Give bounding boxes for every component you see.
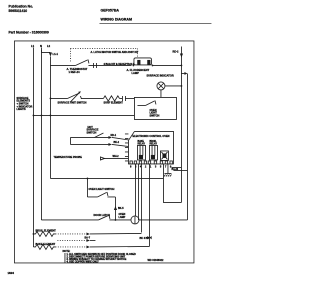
svg-text:SWITCH: SWITCH (86, 132, 96, 135)
svg-text:WD 31646322: WD 31646322 (147, 259, 164, 262)
wire: jumper bracket at top of L2 (41, 50, 50, 53)
wire: oven circuits feed drop (50, 177, 163, 179)
label: surface indicator (146, 73, 173, 77)
label: oven thermostat (66, 67, 87, 74)
note block (62, 250, 136, 264)
svg-text:13/94: 13/94 (7, 271, 14, 275)
hot surface switch blade (94, 133, 103, 138)
svg-text:L1: L1 (31, 44, 35, 48)
svg-text:SURFACE UNIT SWITCH: SURFACE UNIT SWITCH (57, 101, 86, 104)
label: oven lamp (118, 213, 125, 219)
svg-text:A. LATCH MOTOR SWITCH AND ASSY: A. LATCH MOTOR SWITCH AND ASSY KIT (90, 51, 138, 54)
label: temperature probe (53, 156, 82, 159)
terminal ticks (93, 63, 96, 68)
wire (119, 97, 122, 99)
oven thermostat switch blade (75, 60, 87, 65)
inline connector on drop 4 (147, 236, 151, 239)
label RD-2 (172, 49, 179, 53)
junction (87, 178, 89, 180)
svg-text:Publication No.: Publication No. (8, 4, 33, 8)
label: hot surface switch (86, 126, 98, 135)
svg-text:TEMPERATURE PROBE: TEMPERATURE PROBE (53, 156, 82, 159)
broil relay K2 (149, 145, 157, 160)
dashed drop to lamp (136, 48, 138, 56)
svg-text:RELAY: RELAY (137, 143, 145, 146)
wire: probe to control (104, 157, 128, 159)
connector arrow RD-1 (108, 136, 112, 139)
wire (81, 97, 103, 99)
node L1 label (31, 44, 35, 48)
svg-text:BK-2: BK-2 (113, 141, 119, 144)
label: broil relay (149, 141, 157, 145)
svg-text:Part Number - 316000309: Part Number - 316000309 (8, 30, 48, 34)
junction (33, 115, 35, 117)
door latch switch S3 (41, 215, 131, 220)
surface unit infinite switch (67, 91, 81, 102)
terminal arrow RD-2 (180, 53, 183, 57)
ground (164, 164, 172, 177)
connector arrow BA-7 (86, 233, 90, 236)
label: surface element (103, 101, 123, 104)
wire: lamp riser (114, 197, 116, 220)
svg-text:SURFACE INDICATOR: SURFACE INDICATOR (146, 73, 173, 77)
node N label (40, 44, 42, 48)
svg-text:N: N (40, 44, 42, 48)
wire: light switch drop (86, 178, 88, 197)
svg-text:SURF ELEMENT: SURF ELEMENT (103, 101, 123, 104)
svg-text:4 BAG KIT & RECEPTACLE: 4 BAG KIT & RECEPTACLE (103, 63, 134, 66)
wire (90, 232, 142, 235)
svg-text:LAMP: LAMP (118, 216, 125, 219)
wire: control drop 3 (137, 164, 139, 220)
probe jack connector (100, 157, 104, 160)
svg-text:1 REF-24: 1 REF-24 (68, 70, 80, 74)
label: oven light switch (88, 188, 114, 191)
terminal arrow L1-1 (49, 52, 52, 56)
junction: surface row on L2 rail (50, 98, 52, 100)
wire: long neutral run (33, 114, 134, 116)
label L1-1 (52, 52, 58, 56)
connector arrow to indicator rail (181, 72, 184, 74)
svg-text:BK 4 BK: BK 4 BK (139, 237, 149, 240)
legend text block (16, 97, 32, 111)
wire: right rail RD (x=181) (180, 46, 182, 202)
svg-text:WH-2: WH-2 (112, 155, 119, 158)
oven light switch box (134, 97, 176, 119)
junction (181, 85, 183, 87)
wire: left rail N (x=41) (40, 47, 42, 220)
label BA-7 (84, 236, 90, 239)
label: bake relay (137, 140, 145, 145)
wire: left rail L1 (x=33) (32, 47, 34, 247)
thermostat contact (88, 59, 89, 63)
label BK 4 BK (139, 237, 149, 240)
svg-text:OVEN LIGHT SWITCH: OVEN LIGHT SWITCH (88, 188, 114, 191)
electronic oven control box U1 (128, 131, 173, 164)
label: latch motor assembly (90, 51, 138, 54)
wire: control terminals to rail (171, 166, 181, 168)
svg-text:BK-5: BK-5 (118, 207, 124, 210)
label WH-2 (112, 155, 119, 158)
svg-text:LIGHTS: LIGHTS (16, 108, 25, 111)
publication number header (8, 4, 33, 13)
junction (41, 115, 43, 117)
diagram outer border (14, 41, 194, 263)
wire: surface unit row (50, 97, 67, 99)
wire: pilot lamp down to switch box (160, 90, 162, 98)
page footer date (7, 271, 14, 275)
wire: bake dashed run (55, 246, 86, 248)
label: bake element (35, 243, 55, 246)
wire: thermostat to lamp (88, 64, 131, 66)
svg-text:L2: L2 (47, 44, 51, 48)
fluorescent lamp FL1 (133, 58, 154, 66)
label: bag kit (103, 63, 134, 66)
drawing number (147, 259, 164, 262)
connector arrow (86, 239, 90, 242)
wire to light switch box (125, 97, 134, 99)
surface indicator pilot lamp (157, 82, 165, 90)
svg-text:SWITCH: SWITCH (149, 115, 159, 118)
terminal arrow BK-5 (114, 206, 117, 210)
control box edge connector pins (125, 134, 129, 161)
label: broil element (35, 229, 56, 232)
svg-text:GEF357BA: GEF357BA (100, 8, 119, 12)
wire (90, 239, 96, 241)
wire: control terminals to rail 2 (173, 169, 187, 171)
junction (115, 219, 117, 221)
resistor: broil element (33, 231, 55, 236)
resistor: bake element (33, 244, 55, 249)
wire: rail RD corner run (163, 164, 181, 203)
limiter contacts LT-1 (122, 96, 125, 101)
label: electronic control (132, 135, 169, 138)
label RD-1 (110, 134, 116, 137)
label: oven light switch (149, 109, 159, 118)
wire: control drop 2 (140, 164, 142, 233)
label BA-26 (171, 168, 178, 171)
label BK-2 (113, 141, 119, 144)
model number title (100, 8, 132, 21)
DLB relay K3 (160, 151, 168, 161)
dashed enclosure run (70, 47, 137, 49)
svg-text:RELAY: RELAY (149, 143, 157, 146)
label: fluorescent lamp (126, 68, 149, 75)
svg-text:BA-7: BA-7 (84, 236, 90, 239)
svg-text:BAKE ELEMENT: BAKE ELEMENT (35, 243, 55, 246)
node L2 label (47, 44, 51, 48)
terminal pin numbers (130, 165, 175, 168)
label: surface unit switch (57, 101, 86, 104)
wire: control drop 1 (134, 164, 136, 216)
connector arrow BK-2 (108, 143, 112, 146)
wire: indicator rail (x=187) (186, 73, 188, 220)
svg-text:5995311410: 5995311410 (8, 9, 27, 13)
junction (33, 233, 35, 235)
wire: hot surface loop upper (70, 136, 108, 138)
svg-text:BROIL ELEMENT: BROIL ELEMENT (35, 229, 56, 232)
part number (8, 30, 48, 34)
dashed enclosure riser (69, 48, 71, 61)
wire (90, 245, 150, 248)
wire: pilot lamp to rail (165, 85, 182, 87)
wire (112, 144, 129, 146)
svg-text:4. USE COPPER WIRE ONLY: 4. USE COPPER WIRE ONLY (66, 260, 99, 263)
bake relay K1 (137, 145, 145, 160)
svg-text:L1-1: L1-1 (52, 52, 58, 56)
svg-text:RD-1: RD-1 (110, 134, 116, 137)
title underline rule (99, 22, 211, 24)
wire: lamp to right rail (152, 64, 181, 66)
junction: rail and lamp wire (181, 65, 183, 67)
svg-text:WIRING DIAGRAM: WIRING DIAGRAM (100, 17, 132, 21)
wire: middle return dashed (57, 239, 86, 241)
label: door latch (93, 214, 110, 217)
switch inside box (137, 100, 156, 105)
svg-text:LAMP: LAMP (131, 71, 139, 75)
svg-text:RD-2: RD-2 (172, 49, 179, 53)
connector arrow (86, 246, 90, 249)
junction (50, 115, 52, 117)
label BK-5 (118, 207, 124, 210)
wire: loop left side (69, 137, 71, 144)
wire: thermostat feed (50, 64, 75, 66)
oven lamp E1 (131, 216, 139, 224)
wire: lamp to indicator rail (139, 219, 188, 221)
wire: control drop 4 (148, 164, 150, 247)
note block bracket (64, 253, 66, 263)
terminal block row (130, 161, 172, 164)
oven light switch S2 (87, 192, 115, 197)
wire: left rail L2 (x=49) (49, 56, 51, 178)
wire (112, 137, 129, 140)
resistor: surface element (103, 96, 119, 101)
wire: hot surface loop lower (70, 143, 108, 145)
wire: broil dashed run (55, 233, 86, 235)
svg-text:ELECTRONIC CONTROL OVEN: ELECTRONIC CONTROL OVEN (132, 135, 169, 138)
